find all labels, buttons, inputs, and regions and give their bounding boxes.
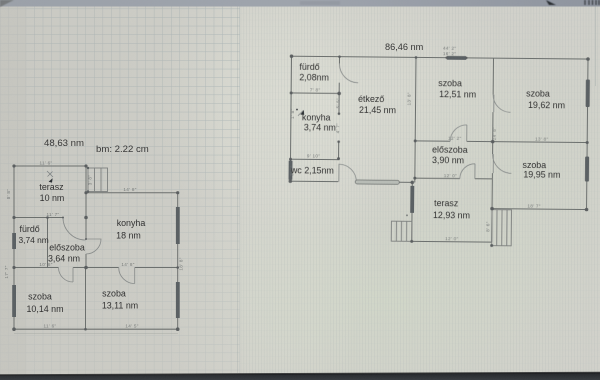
dark smudge top-left corner: [0, 0, 14, 7]
door arc: szoba 13,11: [119, 268, 135, 284]
wall: bottom of wc/étkező y=180.5 with wc door opening: [290, 181, 412, 182]
stairs: terasz left: [391, 221, 412, 241]
window: szoba 19,62 right wall: [586, 80, 590, 108]
wall: étkező/szoba divider x=415.5: [415, 57, 416, 182]
wall: bottom outer: [14, 328, 178, 330]
wall: fürdő bottom y=92.3: [291, 92, 339, 94]
window: szoba 19,95 right wall: [585, 157, 589, 182]
door arc: szoba 19,95: [492, 154, 511, 173]
corner dots left plan: [12, 164, 179, 331]
bottom bezel: [0, 373, 600, 380]
window: étkező bottom big window: [355, 180, 399, 184]
wall: konyha right x=339, opening y112.5-140.5: [338, 93, 341, 159]
wall: right outer: [177, 193, 179, 330]
wall: vertical x=86 terasz right / konyha left, door opening y239-254: [85, 166, 87, 268]
wall: rooms divider x=493 with door openings: [492, 58, 493, 179]
north arrow icon (terasz): [47, 171, 53, 177]
wall: terasz right x=493: [491, 179, 494, 242]
wall: left outer x=14: [13, 166, 15, 329]
photo grain: [0, 0, 1, 1]
canvas edge faint line: [237, 6, 238, 373]
wall: left outer x=291: [290, 56, 291, 181]
window: wc left wall: [289, 161, 293, 180]
small speck near terasz: [406, 214, 408, 216]
door arc: wc: [339, 164, 357, 182]
window: konyha right wall: [176, 207, 180, 244]
dimension line below bottom: [14, 333, 178, 335]
door arc: előszoba to terasz: [460, 164, 475, 179]
wall: middle horizontal y=267.5 with door openings: [14, 267, 178, 269]
window: fürdő left wall: [12, 233, 16, 249]
wall: konyha top: [86, 192, 178, 194]
north arrow icon (konyha): [298, 110, 304, 116]
room labels left plan: [19, 182, 146, 314]
window: szoba 12,51 top wall: [446, 56, 466, 60]
dimension texts left plan: [4, 161, 184, 329]
stairs (left plan, next to terasz): [88, 168, 108, 192]
stairs: terasz right: [492, 210, 512, 246]
wall: terasz bottom y=239.5: [412, 240, 492, 243]
wall: szoba 19,95 bottom y=206: [492, 208, 586, 211]
toolbar cursor icon: [546, 0, 556, 5]
wall: fürdő right x=339 with door opening: [338, 57, 340, 94]
door arc: terasz to előszoba: [63, 218, 86, 241]
door arc: fürdő: [339, 64, 358, 83]
wall: terasz left x=413: [411, 182, 414, 241]
dimension texts right plan: [289, 44, 550, 242]
wall: 19,62/19,95 divider y=139: [493, 141, 587, 144]
wall: terasz/fürdő horizontal with door opening x63-85: [14, 217, 86, 219]
door arc: szoba 19,62: [493, 95, 511, 113]
window: terasz left wall: [410, 186, 414, 213]
wall: wc top y=158.5: [291, 158, 339, 160]
top toolbar strip: [0, 0, 600, 7]
door arc: szoba 10,14: [59, 268, 74, 283]
toolbar tick marks: [585, 0, 599, 5]
room labels right plan: [289, 62, 565, 222]
door arc: előszoba to konyha: [86, 239, 101, 254]
wall: előszoba bottom y=176.3 with door opening: [415, 177, 492, 180]
window: szoba 13,11 right wall: [176, 282, 180, 318]
wall: szoba divider x=85.5: [85, 268, 87, 330]
wall: top outer y=55.5: [292, 56, 588, 59]
wall: szoba12,51 bottom / előszoba top y=139: [415, 140, 492, 143]
corner dots right plan: [288, 54, 590, 248]
wall: terasz top: [14, 165, 86, 167]
window: szoba 10,14 left wall: [12, 285, 16, 317]
wall: right outer x=587.5: [587, 59, 588, 209]
wall: fürdő/előszoba divider: [47, 218, 49, 268]
door arc: szoba 12,51: [450, 125, 467, 142]
